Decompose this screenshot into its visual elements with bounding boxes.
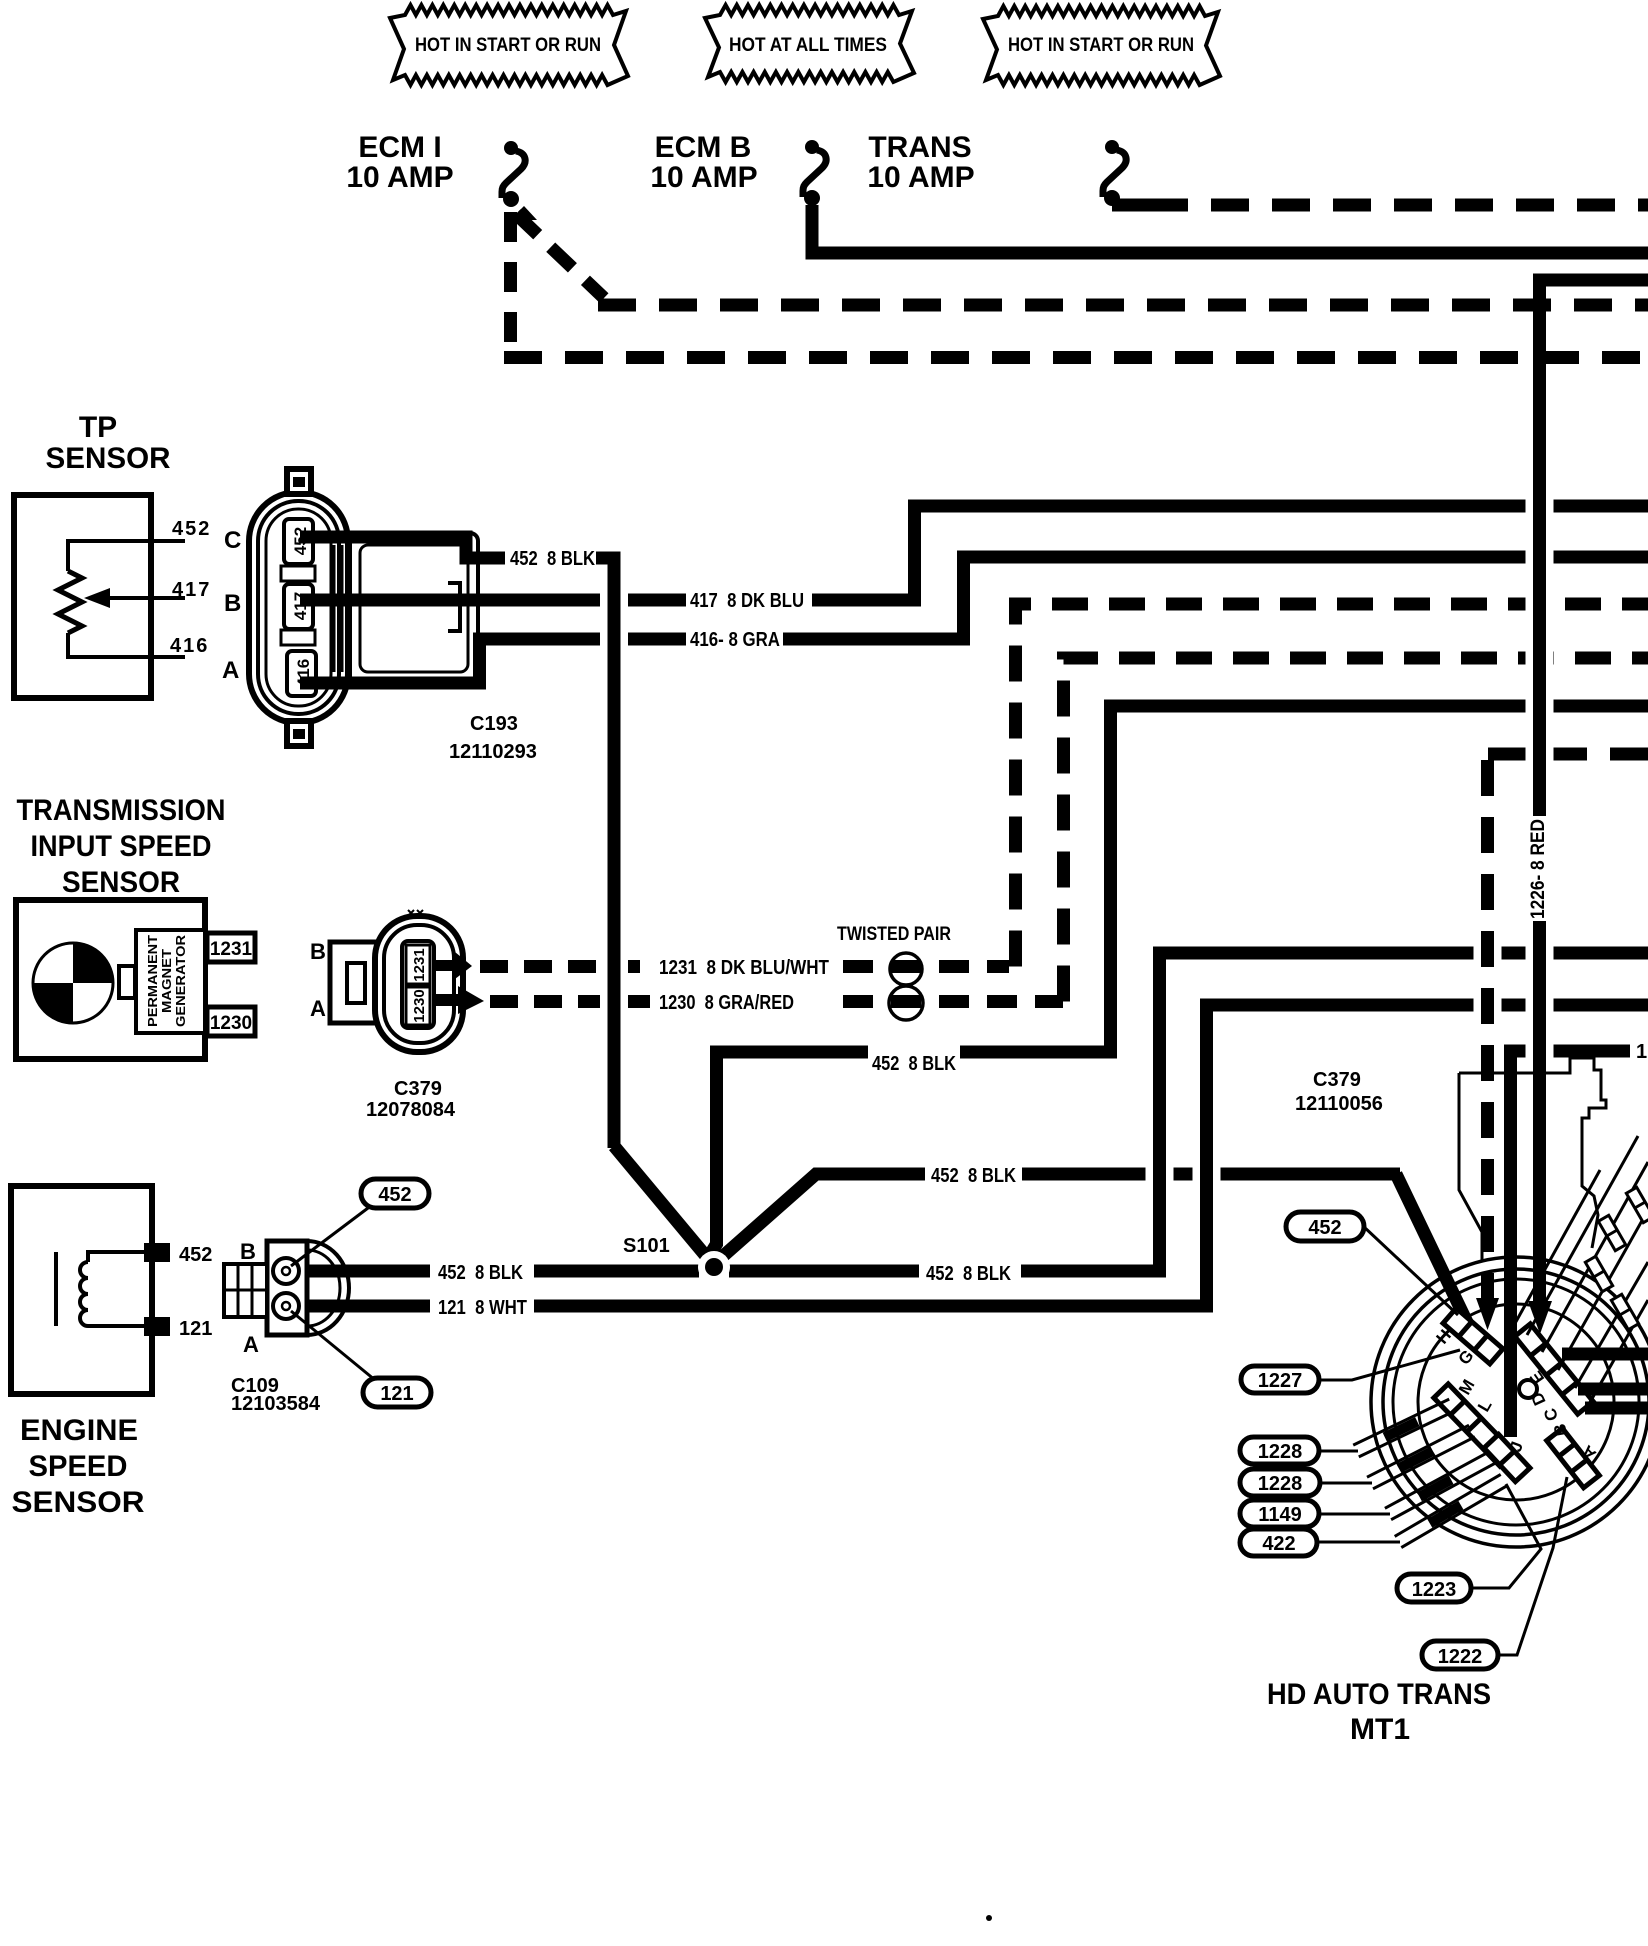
C193 neck lines — [334, 545, 342, 672]
svg-text:1227: 1227 — [1258, 1370, 1303, 1392]
C109 pin A circle — [273, 1293, 299, 1319]
svg-text:S101: S101 — [623, 1235, 670, 1257]
permanent magnet symbol — [33, 943, 113, 1023]
C193 pin 417 — [284, 584, 313, 629]
crossing gaps at dashed H-pin vertical — [1474, 945, 1502, 962]
wire solid from ECM B fuse to right edge — [812, 205, 1648, 253]
svg-text:1231: 1231 — [210, 939, 253, 960]
svg-text:SENSOR: SENSOR — [62, 866, 180, 899]
svg-text:452 8 BLK: 452 8 BLK — [931, 1165, 1016, 1187]
svg-text:C379: C379 — [1313, 1069, 1361, 1091]
fan ladder marks — [1598, 1215, 1625, 1250]
svg-text:12110056: 12110056 — [1295, 1093, 1383, 1115]
wire 452 8 BLK from S101 diagonal to trans connector — [722, 1174, 925, 1257]
oval label 1223 — [1470, 1484, 1541, 1588]
arrow mark at ECM I fuse output — [510, 206, 537, 220]
C193 bottom tab — [287, 721, 311, 746]
banner HOT IN START OR RUN (left) — [390, 5, 628, 85]
transmission input speed sensor box — [16, 900, 205, 1059]
wire dashed feed from right edge down to H pin — [1488, 748, 1648, 761]
PERMANENT MAGNET GENERATOR box — [136, 930, 205, 1033]
oval label 121 (C109) — [291, 1311, 375, 1380]
svg-text:10 AMP: 10 AMP — [346, 161, 453, 194]
wire 452 8 BLK upper branch fed from right edge — [960, 706, 1648, 1052]
C379 pin housing — [402, 941, 434, 1028]
svg-text:A: A — [222, 657, 239, 684]
svg-text:C: C — [224, 527, 241, 554]
trans pin J ladder — [1484, 1434, 1530, 1481]
svg-text:B: B — [240, 1239, 256, 1264]
svg-text:C379: C379 — [394, 1078, 442, 1100]
C193 body rectangle — [350, 533, 478, 684]
svg-text:ECM I: ECM I — [358, 131, 441, 164]
oval label 1222 — [1497, 1477, 1567, 1655]
trans pin E/D ladder — [1515, 1324, 1593, 1414]
C379 top marks — [408, 910, 423, 916]
svg-text:TRANS: TRANS — [868, 131, 971, 164]
svg-text:1223: 1223 — [1412, 1579, 1457, 1601]
C109 left grid — [224, 1264, 267, 1317]
1230 terminal box — [207, 1007, 255, 1036]
svg-text:1228: 1228 — [1258, 1473, 1303, 1495]
svg-text:B: B — [224, 590, 241, 617]
svg-text:417 8 DK BLU: 417 8 DK BLU — [690, 590, 804, 612]
wire 452 8 BLK from C193 pin C down to S101 — [300, 537, 505, 558]
wire 452 8 BLK from S101 right then up — [729, 1265, 919, 1278]
right bars to D C B pins — [1562, 1348, 1648, 1361]
trans connector center circle — [1519, 1380, 1537, 1398]
svg-text:ECM B: ECM B — [655, 131, 752, 164]
svg-text:1228: 1228 — [1258, 1441, 1303, 1463]
wire 1226 feed from right edge turning down — [1540, 280, 1648, 816]
wire J feed from right edge turning down — [1511, 1051, 1631, 1437]
svg-text:TP: TP — [79, 411, 117, 444]
tab left of PMG box — [119, 966, 135, 998]
TP sensor box — [14, 495, 151, 698]
svg-text:HOT IN START OR RUN: HOT IN START OR RUN — [415, 35, 601, 56]
trans connector outer circles — [1371, 1257, 1648, 1547]
svg-text:INPUT SPEED: INPUT SPEED — [31, 830, 212, 863]
1231 terminal box — [207, 933, 255, 962]
svg-text:1230 8 GRA/RED: 1230 8 GRA/RED — [659, 992, 794, 1014]
svg-text:452: 452 — [172, 518, 211, 540]
svg-text:452: 452 — [378, 1184, 411, 1206]
fan wires upper right — [1527, 1136, 1638, 1335]
page dot — [986, 1915, 992, 1921]
svg-text:PERMANENT: PERMANENT — [145, 935, 160, 1027]
crossing gaps at 1226 vertical — [1526, 498, 1554, 515]
arrow 1226 into E pin — [1533, 1130, 1546, 1310]
wire dashed ECM I branch A — [516, 214, 604, 298]
svg-text:A: A — [310, 996, 326, 1021]
svg-text:452 8 BLK: 452 8 BLK — [872, 1053, 956, 1075]
svg-text:A: A — [243, 1332, 259, 1357]
trans pin H/G ladder — [1443, 1308, 1503, 1364]
svg-text:MT1: MT1 — [1350, 1713, 1410, 1746]
wiper arrow — [106, 596, 185, 600]
svg-text:452: 452 — [179, 1244, 212, 1266]
svg-text:GENERATOR: GENERATOR — [173, 934, 188, 1027]
svg-text:1226- 8 RED: 1226- 8 RED — [1528, 819, 1549, 919]
svg-text:417: 417 — [172, 579, 211, 601]
svg-text:MAGNET: MAGNET — [159, 949, 174, 1013]
oval label 1149 — [1316, 1513, 1390, 1516]
connector C193 oval shell — [249, 492, 348, 723]
svg-text:1: 1 — [1636, 1041, 1647, 1063]
C379 pin 1230 — [406, 987, 430, 1025]
svg-text:452 8 BLK: 452 8 BLK — [438, 1262, 523, 1284]
svg-text:1231: 1231 — [411, 948, 428, 981]
wire 452 8 BLK from C109 to S101 — [296, 1265, 430, 1278]
svg-text:TRANSMISSION: TRANSMISSION — [17, 794, 226, 827]
svg-text:HD AUTO TRANS: HD AUTO TRANS — [1267, 1678, 1491, 1711]
svg-text:10 AMP: 10 AMP — [867, 161, 974, 194]
S101 junction dot — [698, 1251, 730, 1283]
oval label 1227 — [1319, 1350, 1460, 1380]
svg-text:121: 121 — [380, 1383, 413, 1405]
crossing gaps at 452 TP vertical — [600, 592, 628, 609]
wire 416- 8 GRA from C193 pin A — [300, 639, 686, 683]
oval label 422 — [1317, 1541, 1400, 1544]
coil L — [88, 1252, 144, 1262]
svg-text:HOT AT ALL TIMES: HOT AT ALL TIMES — [729, 35, 887, 56]
arrow to H pin — [1476, 1298, 1499, 1330]
svg-text:452 8 BLK: 452 8 BLK — [926, 1263, 1011, 1285]
connector C379 oval shell — [375, 916, 463, 1052]
terminal 121 — [144, 1317, 170, 1336]
terminal 452 — [144, 1243, 170, 1262]
svg-text:1230: 1230 — [411, 989, 428, 1022]
C193 slot — [281, 566, 315, 581]
wire 417 8 DK BLU from C193 pin B — [300, 594, 686, 607]
svg-text:B: B — [310, 939, 326, 964]
C193 pin 416 — [287, 651, 316, 696]
transmission silhouette outline — [1459, 1058, 1606, 1248]
oval label 1228 — [1316, 1450, 1358, 1453]
svg-text:12110293: 12110293 — [449, 741, 537, 763]
crossing gaps at S101 risers — [1146, 1166, 1174, 1183]
C379 arrows — [432, 952, 472, 979]
svg-text:452 8 BLK: 452 8 BLK — [510, 548, 595, 570]
banner HOT IN START OR RUN (right) — [983, 6, 1220, 85]
banner HOT AT ALL TIMES — [705, 5, 914, 82]
svg-text:10 AMP: 10 AMP — [650, 161, 757, 194]
svg-text:SENSOR: SENSOR — [12, 1486, 145, 1519]
oval label 1228 (second) — [1316, 1482, 1372, 1485]
svg-text:121 8 WHT: 121 8 WHT — [438, 1297, 527, 1319]
oval label 452 (C109) — [291, 1205, 372, 1266]
svg-text:12078084: 12078084 — [366, 1099, 456, 1121]
svg-text:SENSOR: SENSOR — [46, 442, 171, 475]
wire 1231 8 DK BLU/WHT dashed — [480, 960, 652, 973]
svg-text:TWISTED PAIR: TWISTED PAIR — [837, 924, 951, 945]
svg-text:ENGINE: ENGINE — [20, 1414, 138, 1447]
C193 slot — [281, 630, 315, 645]
svg-text:416: 416 — [170, 635, 209, 657]
potentiometer R (TP sensor) — [58, 571, 82, 633]
connector C109 body — [307, 1241, 349, 1335]
trans pin M/L ladder — [1434, 1384, 1514, 1466]
svg-text:422: 422 — [1262, 1533, 1295, 1555]
wire 1230 8 GRA/RED dashed — [490, 995, 652, 1008]
svg-text:HOT IN START OR RUN: HOT IN START OR RUN — [1008, 35, 1194, 56]
oval label 452 (trans) — [1363, 1226, 1458, 1315]
svg-text:12103584: 12103584 — [231, 1393, 321, 1415]
C379 left tab — [330, 942, 377, 1023]
lower-left wire pairs into M/L and J pins — [1359, 1411, 1455, 1457]
C193 top tab — [287, 469, 311, 494]
core bar — [54, 1252, 58, 1326]
C193 pin 452 — [284, 519, 313, 564]
svg-text:SPEED: SPEED — [29, 1450, 128, 1483]
C379 pin 1231 — [406, 945, 430, 984]
wire dashed from TRANS fuse to right edge — [1112, 199, 1150, 212]
trans pin A ladder — [1547, 1428, 1600, 1488]
svg-text:1230: 1230 — [210, 1013, 252, 1034]
engine speed sensor box — [11, 1186, 152, 1394]
svg-text:C193: C193 — [470, 713, 518, 735]
svg-text:416- 8 GRA: 416- 8 GRA — [690, 629, 780, 651]
wire 121 8 WHT from C109 — [296, 1300, 430, 1313]
svg-text:121: 121 — [179, 1318, 212, 1340]
svg-text:452: 452 — [1308, 1217, 1341, 1239]
wire dashed ECM I branch B — [504, 212, 517, 351]
svg-text:1149: 1149 — [1258, 1504, 1301, 1526]
C109 pin B circle — [273, 1258, 299, 1284]
svg-text:1222: 1222 — [1438, 1646, 1483, 1668]
svg-text:1231 8 DK BLU/WHT: 1231 8 DK BLU/WHT — [659, 957, 829, 979]
